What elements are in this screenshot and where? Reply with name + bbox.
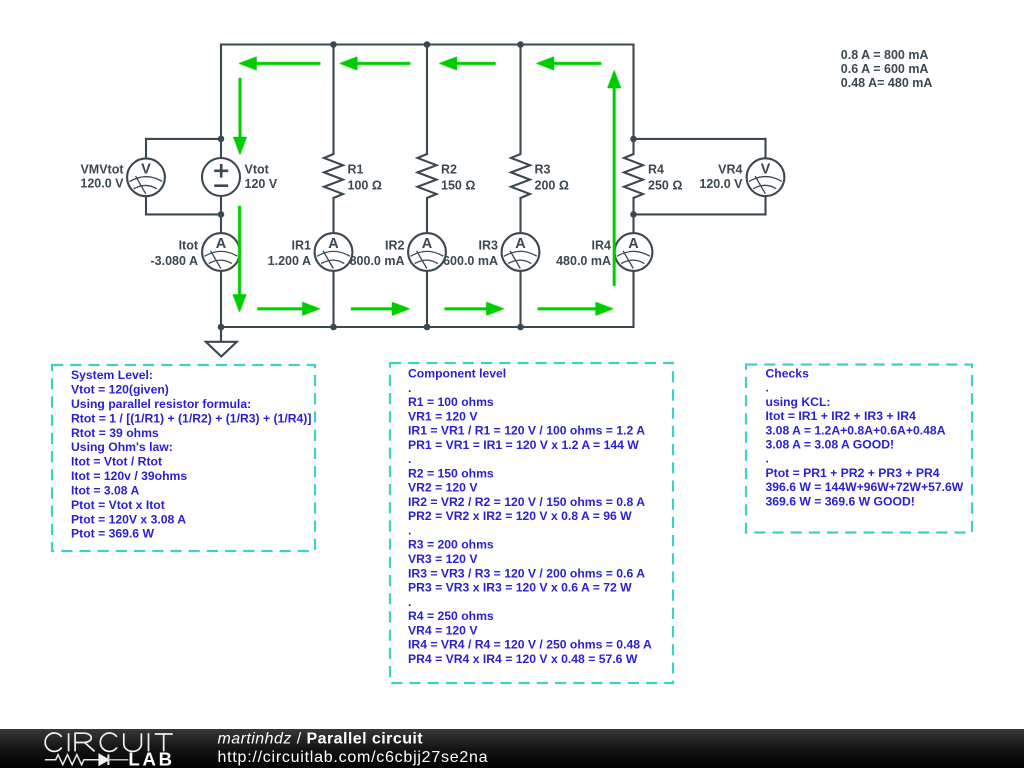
- svg-text:R2: R2: [441, 163, 457, 177]
- svg-text:V: V: [141, 161, 151, 177]
- svg-text:A: A: [328, 236, 339, 252]
- svg-text:3.08 A = 3.08 A GOOD!: 3.08 A = 3.08 A GOOD!: [766, 438, 895, 452]
- svg-text:VR2 = 120 V: VR2 = 120 V: [408, 481, 478, 495]
- svg-text:PR2 = VR2 x IR2 = 120 V x 0.8: PR2 = VR2 x IR2 = 120 V x 0.8 A = 96 W: [408, 509, 632, 523]
- annotation box: Component level: [390, 363, 673, 683]
- svg-text:A: A: [628, 236, 639, 252]
- note: unit conversions: [841, 48, 933, 90]
- junction: bottom bus / IR3: [517, 324, 524, 331]
- svg-text:V: V: [761, 161, 771, 177]
- svg-text:800.0 mA: 800.0 mA: [350, 254, 405, 268]
- svg-text:1.200 A: 1.200 A: [268, 254, 311, 268]
- current arrow: top bus left 1: [239, 57, 321, 71]
- svg-text:200 Ω: 200 Ω: [535, 179, 569, 193]
- svg-text:120.0 V: 120.0 V: [699, 177, 743, 191]
- svg-text:150 Ω: 150 Ω: [441, 179, 475, 193]
- svg-text:Rtot = 1 / [(1/R1) + (1/R2) +: Rtot = 1 / [(1/R1) + (1/R2) + (1/R3) + (…: [71, 411, 311, 425]
- junction: top bus / R2: [424, 41, 431, 48]
- label R3 value: [535, 163, 569, 193]
- wire: VR4 top: [634, 138, 766, 140]
- junction: top bus / R1: [330, 41, 337, 48]
- svg-text:VR4 = 120 V: VR4 = 120 V: [408, 623, 478, 637]
- wire: top bus: [221, 43, 634, 45]
- svg-text:-3.080 A: -3.080 A: [151, 254, 198, 268]
- label IR3 value: [443, 239, 498, 268]
- svg-text:.: .: [408, 381, 411, 395]
- svg-text:IR3: IR3: [479, 239, 499, 253]
- ammeter IR4: [615, 233, 653, 271]
- svg-text:3.08 A = 1.2A+0.8A+0.6A+0.48A: 3.08 A = 1.2A+0.8A+0.6A+0.48A: [766, 423, 946, 437]
- svg-text:Component level: Component level: [408, 367, 506, 381]
- label R1 value: [348, 163, 382, 193]
- svg-text:using KCL:: using KCL:: [766, 395, 831, 409]
- voltage source Vtot: [202, 158, 240, 196]
- svg-text:Itot = IR1 + IR2 + IR3 + IR4: Itot = IR1 + IR2 + IR3 + IR4: [766, 409, 917, 423]
- ammeter IR2: [408, 233, 446, 271]
- svg-text:A: A: [515, 236, 526, 252]
- svg-text:VR1 = 120 V: VR1 = 120 V: [408, 409, 478, 423]
- wire: R2 to ammeter: [426, 198, 428, 233]
- svg-text:R2 = 150 ohms: R2 = 150 ohms: [408, 466, 494, 480]
- label R4 value: [648, 163, 682, 193]
- svg-text:Vtot = 120(given): Vtot = 120(given): [71, 383, 169, 397]
- wire: VR4 bottom: [634, 213, 766, 215]
- current arrow: bottom bus right 4: [538, 302, 614, 316]
- svg-text:VR3 = 120 V: VR3 = 120 V: [408, 552, 478, 566]
- svg-text:PR3 = VR3 x IR3 = 120 V x 0.6: PR3 = VR3 x IR3 = 120 V x 0.6 A = 72 W: [408, 581, 632, 595]
- resistor R4: [624, 154, 643, 198]
- voltmeter VR4: [747, 158, 785, 196]
- svg-text:.: .: [408, 595, 411, 609]
- ammeter Itot: [202, 233, 240, 271]
- svg-text:R3 = 200 ohms: R3 = 200 ohms: [408, 538, 494, 552]
- current arrow: down through Itot: [233, 206, 247, 312]
- label IR4 value: [556, 239, 611, 268]
- label IR2 value: [350, 239, 405, 268]
- svg-text:0.6 A = 600 mA: 0.6 A = 600 mA: [841, 62, 929, 76]
- svg-text:Itot = Vtot / Rtot: Itot = Vtot / Rtot: [71, 455, 162, 469]
- current arrow: top bus left 3: [439, 57, 496, 71]
- wire: R1 branch top: [332, 45, 334, 155]
- svg-text:IR3 = VR3 / R3 = 120 V / 200 o: IR3 = VR3 / R3 = 120 V / 200 ohms = 0.6 …: [408, 566, 645, 580]
- wire: R4 to ammeter: [632, 198, 634, 233]
- resistor R2: [418, 154, 437, 198]
- svg-text:Rtot = 39 ohms: Rtot = 39 ohms: [71, 426, 159, 440]
- junction: bottom bus / IR1: [330, 324, 337, 331]
- wire: ammeter IR3 to bottom bus: [519, 271, 521, 327]
- current arrow: up through R4: [607, 70, 621, 286]
- CircuitLab logo: resistor-diode glyph: [45, 754, 128, 765]
- junction: VMVtot bottom tap: [218, 211, 225, 218]
- svg-text:.: .: [408, 452, 411, 466]
- wire: VR4 upper lead: [764, 139, 766, 158]
- svg-text:Itot: Itot: [179, 239, 199, 253]
- svg-text:Itot = 3.08 A: Itot = 3.08 A: [71, 484, 139, 498]
- wire: VMVtot bottom: [146, 213, 221, 215]
- svg-text:Checks: Checks: [766, 366, 810, 380]
- wire: ammeter IR1 to bottom bus: [332, 271, 334, 327]
- junction: VR4 top tap: [630, 136, 637, 143]
- label VR4 value: [699, 163, 743, 192]
- current arrow: bottom bus right 3: [445, 302, 505, 316]
- svg-text:IR4 = VR4 / R4 = 120 V / 250 o: IR4 = VR4 / R4 = 120 V / 250 ohms = 0.48…: [408, 638, 652, 652]
- svg-text:IR4: IR4: [592, 239, 612, 253]
- svg-text:R1 = 100 ohms: R1 = 100 ohms: [408, 395, 494, 409]
- svg-text:Ptot = Vtot x Itot: Ptot = Vtot x Itot: [71, 498, 165, 512]
- current arrow: bottom bus right 1: [257, 302, 320, 316]
- svg-text:R1: R1: [348, 163, 364, 177]
- voltmeter VMVtot: [127, 158, 165, 196]
- current arrow: top bus left 2: [339, 57, 410, 71]
- svg-text:IR1 = VR1 / R1 = 120 V / 100 o: IR1 = VR1 / R1 = 120 V / 100 ohms = 1.2 …: [408, 424, 645, 438]
- wire: Itot to bottom bus: [220, 271, 222, 327]
- resistor R1: [324, 154, 343, 198]
- junction: bottom bus / ground: [218, 324, 225, 331]
- wire: R3 to ammeter: [519, 198, 521, 233]
- wire: VMVtot lower lead: [145, 196, 147, 215]
- svg-text:480.0 mA: 480.0 mA: [556, 254, 611, 268]
- svg-text:IR2: IR2: [385, 239, 405, 253]
- wire: R3 branch top: [519, 45, 521, 155]
- svg-text:120 V: 120 V: [245, 177, 278, 191]
- label Itot value: [151, 239, 199, 268]
- svg-text:.: .: [766, 381, 769, 395]
- svg-text:600.0 mA: 600.0 mA: [443, 254, 498, 268]
- svg-text:Using Ohm's law:: Using Ohm's law:: [71, 440, 173, 454]
- svg-text:VMVtot: VMVtot: [80, 163, 124, 177]
- svg-text:0.8 A = 800 mA: 0.8 A = 800 mA: [841, 48, 929, 62]
- svg-text:http://circuitlab.com/c6cbjj27: http://circuitlab.com/c6cbjj27se2na: [218, 749, 489, 766]
- label Vtot value: [245, 163, 278, 192]
- ammeter IR1: [315, 233, 353, 271]
- wire: ammeter IR4 to bottom bus: [632, 271, 634, 327]
- wire: VR4 lower lead: [764, 196, 766, 214]
- label VMVtot value: [80, 163, 124, 191]
- junction: VMVtot top tap: [218, 136, 225, 143]
- svg-text:Ptot = 120V x 3.08 A: Ptot = 120V x 3.08 A: [71, 512, 186, 526]
- current arrow: down into Vtot: [233, 78, 247, 155]
- annotation box: System Level: [52, 365, 315, 551]
- junction: VR4 bottom tap: [630, 211, 637, 218]
- svg-text:Ptot = 369.6 W: Ptot = 369.6 W: [71, 527, 154, 541]
- junction: top bus / R3: [517, 41, 524, 48]
- svg-text:PR4 = VR4 x IR4 = 120 V x 0.48: PR4 = VR4 x IR4 = 120 V x 0.48 = 57.6 W: [408, 652, 638, 666]
- svg-text:Vtot: Vtot: [245, 163, 270, 177]
- wire: Vtot to Itot: [220, 196, 222, 233]
- svg-text:.: .: [408, 524, 411, 538]
- wire: R1 to ammeter: [332, 198, 334, 233]
- wire: R4 branch top: [632, 45, 634, 155]
- svg-text:A: A: [422, 236, 433, 252]
- svg-text:PR1 = VR1 = IR1 = 120 V x 1.2: PR1 = VR1 = IR1 = 120 V x 1.2 A = 144 W: [408, 438, 639, 452]
- annotation box: Checks: [746, 365, 972, 533]
- current arrow: top bus left 4: [536, 57, 601, 71]
- resistor R3: [511, 154, 530, 198]
- wire: VMVtot top: [146, 138, 221, 140]
- svg-text:120.0 V: 120.0 V: [80, 177, 124, 191]
- svg-text:IR1: IR1: [292, 239, 312, 253]
- svg-text:A: A: [216, 236, 227, 252]
- svg-text:martinhdz / Parallel circuit: martinhdz / Parallel circuit: [218, 731, 424, 748]
- svg-text:Using parallel resistor formul: Using parallel resistor formula:: [71, 397, 251, 411]
- ammeter IR3: [502, 233, 540, 271]
- CircuitLab logo: CIRCUIT lettering: [45, 733, 173, 751]
- wire: R2 branch top: [426, 45, 428, 155]
- svg-text:LAB: LAB: [128, 748, 174, 768]
- svg-text:R4: R4: [648, 163, 664, 177]
- svg-text:System Level:: System Level:: [71, 368, 153, 382]
- ground: [206, 327, 237, 357]
- svg-text:IR2 = VR2 / R2 = 120 V / 150 o: IR2 = VR2 / R2 = 120 V / 150 ohms = 0.8 …: [408, 495, 645, 509]
- label IR1 value: [268, 239, 311, 268]
- svg-text:250 Ω: 250 Ω: [648, 179, 682, 193]
- junction: bottom bus / IR2: [424, 324, 431, 331]
- svg-text:Ptot = PR1 + PR2 + PR3 + PR4: Ptot = PR1 + PR2 + PR3 + PR4: [766, 466, 940, 480]
- wire: Vtot branch top: [220, 45, 222, 159]
- svg-text:100 Ω: 100 Ω: [348, 179, 382, 193]
- svg-text:R3: R3: [535, 163, 551, 177]
- svg-text:396.6 W = 144W+96W+72W+57.6W: 396.6 W = 144W+96W+72W+57.6W: [766, 480, 964, 494]
- wire: ammeter IR2 to bottom bus: [426, 271, 428, 327]
- wire: VMVtot upper lead: [145, 139, 147, 159]
- label R2 value: [441, 163, 475, 193]
- svg-text:VR4: VR4: [718, 163, 742, 177]
- current arrow: bottom bus right 2: [351, 302, 410, 316]
- wire: bottom bus: [221, 326, 634, 328]
- svg-text:.: .: [766, 452, 769, 466]
- svg-text:R4 = 250 ohms: R4 = 250 ohms: [408, 609, 494, 623]
- svg-text:0.48 A= 480 mA: 0.48 A= 480 mA: [841, 76, 933, 90]
- svg-text:369.6 W = 369.6 W GOOD!: 369.6 W = 369.6 W GOOD!: [766, 494, 915, 508]
- svg-text:Itot = 120v / 39ohms: Itot = 120v / 39ohms: [71, 469, 187, 483]
